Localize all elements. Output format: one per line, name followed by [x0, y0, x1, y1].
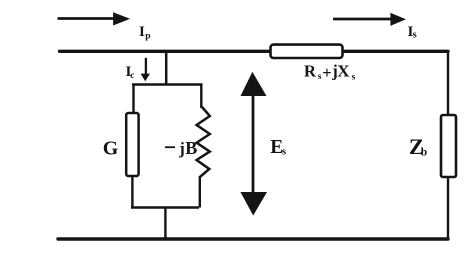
svg-text:B: B	[185, 138, 197, 158]
svg-text:b: b	[421, 146, 427, 158]
svg-text:X: X	[337, 62, 350, 81]
svg-text:j: j	[178, 139, 185, 158]
svg-text:s: s	[413, 30, 417, 41]
svg-text:s: s	[318, 72, 322, 82]
svg-text:s: s	[282, 147, 286, 158]
svg-text:I: I	[139, 24, 145, 40]
svg-text:s: s	[352, 73, 356, 83]
svg-text:c: c	[130, 70, 134, 80]
svg-text:p: p	[145, 31, 150, 41]
svg-text:+: +	[322, 63, 331, 82]
svg-text:R: R	[304, 62, 317, 81]
svg-text:G: G	[103, 137, 119, 159]
